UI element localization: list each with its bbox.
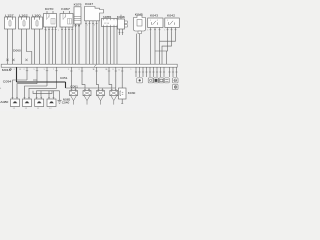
lamp unit L160 [32, 14, 43, 30]
splice at x=13.5 [12, 59, 14, 61]
ground C040 [58, 91, 62, 104]
wires fuse to bus [76, 29, 79, 65]
svg-text:1 2 3 4: 1 2 3 4 [104, 23, 109, 25]
wires K042 to bus [155, 31, 176, 64]
svg-text:N085: N085 [63, 98, 71, 101]
gong A080-4 [47, 97, 56, 111]
svg-text:1: 1 [150, 20, 151, 22]
wires lamp units to bus [8, 29, 40, 64]
bold feed wire [17, 67, 66, 88]
bus stubs instrument cluster [135, 67, 178, 77]
svg-text:C051: C051 [60, 77, 68, 80]
routing to gongs A080 [13, 80, 60, 97]
svg-text:C094: C094 [3, 80, 12, 84]
switch K042 [165, 14, 180, 32]
indicator icon clock [173, 84, 179, 89]
svg-text:1 2: 1 2 [49, 108, 51, 110]
svg-text:K070: K070 [45, 7, 54, 11]
wires N055 to bus [104, 27, 118, 65]
svg-text:K030: K030 [128, 92, 136, 95]
svg-text:2: 2 [79, 69, 80, 71]
wires K043 to bus [151, 31, 160, 64]
wires relays to bus [46, 31, 73, 64]
svg-text:1: 1 [131, 69, 132, 71]
svg-text:C040: C040 [62, 101, 70, 104]
svg-text:5: 5 [34, 69, 35, 71]
svg-text:2: 2 [68, 69, 69, 71]
lamp unit L157 [5, 14, 16, 30]
splice at x=26.5 [25, 59, 27, 61]
injector rail [66, 87, 116, 89]
indicator icon bat [159, 78, 164, 83]
svg-text:K047: K047 [85, 2, 94, 6]
gong A080-1 [11, 97, 20, 111]
svg-text:1 2: 1 2 [37, 108, 39, 110]
svg-text:13: 13 [19, 69, 21, 71]
svg-text:7: 7 [53, 69, 54, 71]
svg-text:1: 1 [87, 25, 88, 27]
pin numbers below bus [0, 30, 165, 91]
indicator icon sun [148, 78, 153, 83]
svg-text:D060: D060 [13, 48, 21, 52]
svg-text:C061: C061 [70, 85, 78, 88]
wire D060 jog [13, 29, 32, 64]
indicator icon dot [137, 78, 143, 83]
svg-text:1 2: 1 2 [25, 108, 27, 110]
svg-text:5: 5 [46, 30, 47, 32]
svg-text:8: 8 [113, 69, 114, 71]
relay K070 [44, 7, 57, 31]
ignition switch K045 [134, 12, 146, 64]
svg-text:1: 1 [167, 20, 168, 22]
bus stubs to injectors [68, 67, 117, 88]
label K030 [128, 92, 136, 95]
ECU K047 [85, 2, 104, 27]
svg-text:2: 2 [24, 69, 25, 71]
svg-text:3: 3 [94, 25, 95, 27]
label C061 [70, 85, 78, 88]
label C094 [3, 80, 12, 84]
label C040 [62, 101, 70, 104]
injector N085-4 [110, 88, 118, 105]
bus stub to K030 [119, 67, 124, 88]
fuse K076 [74, 2, 83, 28]
svg-text:3: 3 [44, 69, 45, 71]
svg-text:2: 2 [14, 69, 15, 71]
sensor K030 [119, 88, 127, 104]
svg-text:A080: A080 [0, 100, 9, 104]
svg-text:K076: K076 [74, 2, 83, 6]
svg-text:2: 2 [157, 20, 158, 22]
svg-text:8: 8 [119, 69, 120, 71]
bus stubs left (A080 feeds) [24, 67, 58, 88]
control unit N055 [102, 15, 119, 27]
indicator icon wav [164, 78, 169, 83]
label A080 [0, 100, 9, 104]
splice at x=7.5 [6, 59, 8, 61]
indicator icon fill [154, 78, 159, 83]
svg-text:K043: K043 [150, 14, 159, 18]
label C051 [60, 77, 68, 80]
gong A080-3 [35, 97, 44, 111]
injector N085-1 [70, 88, 78, 105]
svg-text:K067: K067 [61, 7, 70, 11]
gong A080-2 [23, 97, 32, 111]
lamp unit L162 [19, 14, 30, 30]
svg-text:4: 4 [0, 88, 1, 90]
injector N085-3 [97, 88, 105, 105]
svg-text:56: 56 [93, 69, 95, 71]
label N085 [63, 98, 71, 101]
svg-text:K042: K042 [167, 14, 176, 18]
label M010 [2, 68, 12, 72]
svg-text:30: 30 [106, 69, 108, 71]
indicator icon circ [173, 78, 179, 83]
relay K067 [60, 7, 73, 31]
harness bus M010 [1, 64, 177, 67]
svg-text:1 2: 1 2 [13, 108, 15, 110]
injector N085-2 [83, 88, 91, 105]
wires ECU to bus [86, 21, 99, 64]
switch K043 [148, 14, 163, 32]
connector K046 [117, 15, 128, 35]
